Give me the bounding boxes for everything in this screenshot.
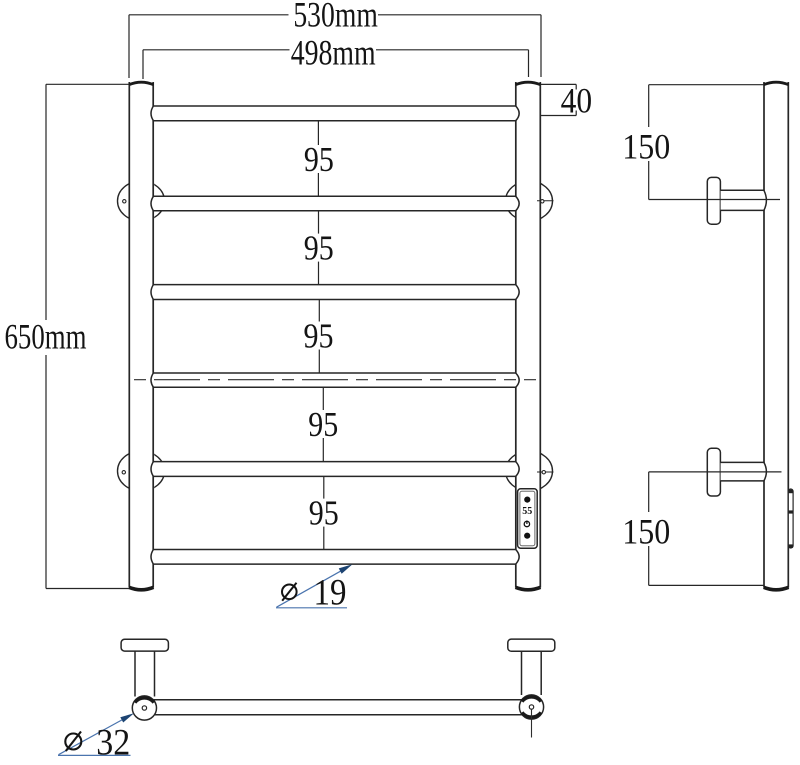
plan right stem	[522, 651, 542, 695]
svg-text:95: 95	[308, 405, 338, 444]
panel power button	[524, 521, 529, 526]
svg-text:95: 95	[304, 140, 334, 179]
dia32 leader	[58, 713, 134, 755]
dim 40	[540, 84, 576, 115]
plan right center dot	[529, 705, 533, 709]
wall mount top-right	[506, 181, 553, 221]
dia19 leader	[276, 564, 353, 608]
dim 95 vertical segments	[318, 121, 323, 550]
text masks	[0, 0, 672, 546]
plan left center dot	[142, 706, 146, 710]
bar 3	[151, 285, 519, 300]
plan left plate	[121, 639, 168, 651]
svg-text:95: 95	[309, 494, 339, 533]
bar 1	[151, 106, 519, 121]
screw dot top-right mount	[541, 200, 544, 203]
plan right circle bottom cap	[522, 712, 541, 717]
plan left circle	[132, 696, 156, 720]
plan right circle	[519, 695, 543, 719]
svg-text:150: 150	[622, 512, 670, 552]
wall mount top-left	[118, 181, 165, 221]
svg-text:19: 19	[314, 572, 347, 613]
left post	[129, 82, 155, 590]
plan right plate	[508, 639, 555, 651]
side bracket top plate	[707, 177, 720, 224]
dim 150 top	[649, 85, 780, 200]
svg-text:150: 150	[622, 127, 670, 167]
svg-text:95: 95	[304, 317, 334, 356]
dim 650mm line	[46, 84, 129, 588]
svg-text:530mm: 530mm	[293, 0, 378, 35]
wall mount bottom-left	[118, 451, 165, 491]
side panel profile	[788, 489, 793, 548]
centerline top-right mount	[537, 200, 554, 202]
dim 150 bottom	[649, 472, 782, 586]
panel button 1	[524, 497, 530, 503]
plan right circle top cap	[522, 697, 541, 702]
bar 5	[151, 462, 519, 477]
right post	[515, 82, 541, 590]
screw dot bottom-right mount	[542, 471, 545, 474]
bar 6	[151, 550, 519, 565]
bar 2	[151, 196, 519, 211]
svg-text:498mm: 498mm	[291, 32, 376, 72]
wall mount bottom-right	[506, 451, 553, 491]
screw dot top-left mount	[123, 200, 126, 203]
dim 498mm line	[143, 50, 529, 79]
dim 530mm line	[129, 15, 541, 78]
side bracket top arm	[721, 190, 767, 210]
control panel on right post	[518, 489, 538, 548]
svg-text:32: 32	[96, 723, 130, 764]
plan left circle top cap	[135, 698, 154, 703]
centerline bottom-right mount	[537, 471, 554, 473]
dia symbol 32	[65, 732, 81, 752]
bar 4 centerline dashed	[134, 379, 536, 381]
side bracket bottom arm	[721, 462, 767, 481]
plan bar tube	[150, 700, 532, 715]
svg-text:650mm: 650mm	[5, 317, 87, 357]
bar 4	[151, 373, 519, 387]
svg-text:40: 40	[561, 81, 593, 121]
side post	[763, 82, 789, 590]
side bracket bottom plate	[707, 448, 720, 496]
panel button 2	[524, 533, 530, 539]
plan left stem	[135, 651, 155, 696]
svg-text:55: 55	[522, 506, 532, 517]
dia symbol 19	[282, 583, 297, 601]
plan right centerline	[531, 709, 533, 738]
screw dot bottom-left mount	[122, 471, 125, 474]
svg-text:95: 95	[304, 229, 334, 268]
